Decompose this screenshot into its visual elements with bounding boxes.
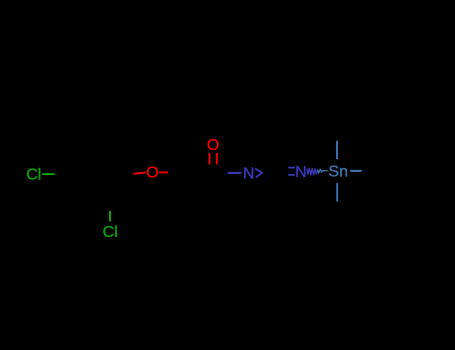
wire: bond C(O)-N (blue half) bbox=[228, 172, 242, 174]
wire: bond Sn-butyl down (steel half) bbox=[336, 183, 338, 201]
wire: bond O-CH2 (red half) bbox=[159, 171, 168, 173]
wire: wavy bond N~Sn (N-colored half) bbox=[307, 168, 318, 176]
wire: bond C1-O (red half) bbox=[133, 172, 145, 173]
wire: bond C2-Cl (green half, vertical) bbox=[109, 211, 111, 222]
wire: crossed double bond N=C lower half bbox=[256, 173, 262, 177]
svg-text:Cl: Cl bbox=[103, 224, 118, 241]
wire: double bond C=O line 2 (red half) bbox=[216, 153, 218, 165]
svg-text:Sn: Sn bbox=[328, 163, 348, 180]
wire: double bond C=N upper dash bbox=[288, 167, 295, 169]
wire: bond Sn-butyl up (steel half) bbox=[336, 141, 338, 159]
wire: crossed double bond N=C upper half bbox=[255, 169, 262, 173]
wire: double bond C=N lower dash bbox=[288, 174, 295, 176]
wire: bond Sn-butyl right (steel half) bbox=[350, 170, 362, 172]
svg-text:O: O bbox=[207, 137, 219, 154]
wire: double bond C=O line 1 (red half) bbox=[209, 153, 211, 164]
wire: wavy bond N~Sn (Sn-colored half) bbox=[318, 169, 328, 172]
svg-text:O: O bbox=[146, 165, 158, 182]
svg-text:N: N bbox=[295, 164, 307, 181]
svg-text:N: N bbox=[243, 166, 255, 183]
svg-text:Cl: Cl bbox=[26, 167, 41, 184]
wire: bond C4-Cl (green half) bbox=[42, 173, 54, 175]
